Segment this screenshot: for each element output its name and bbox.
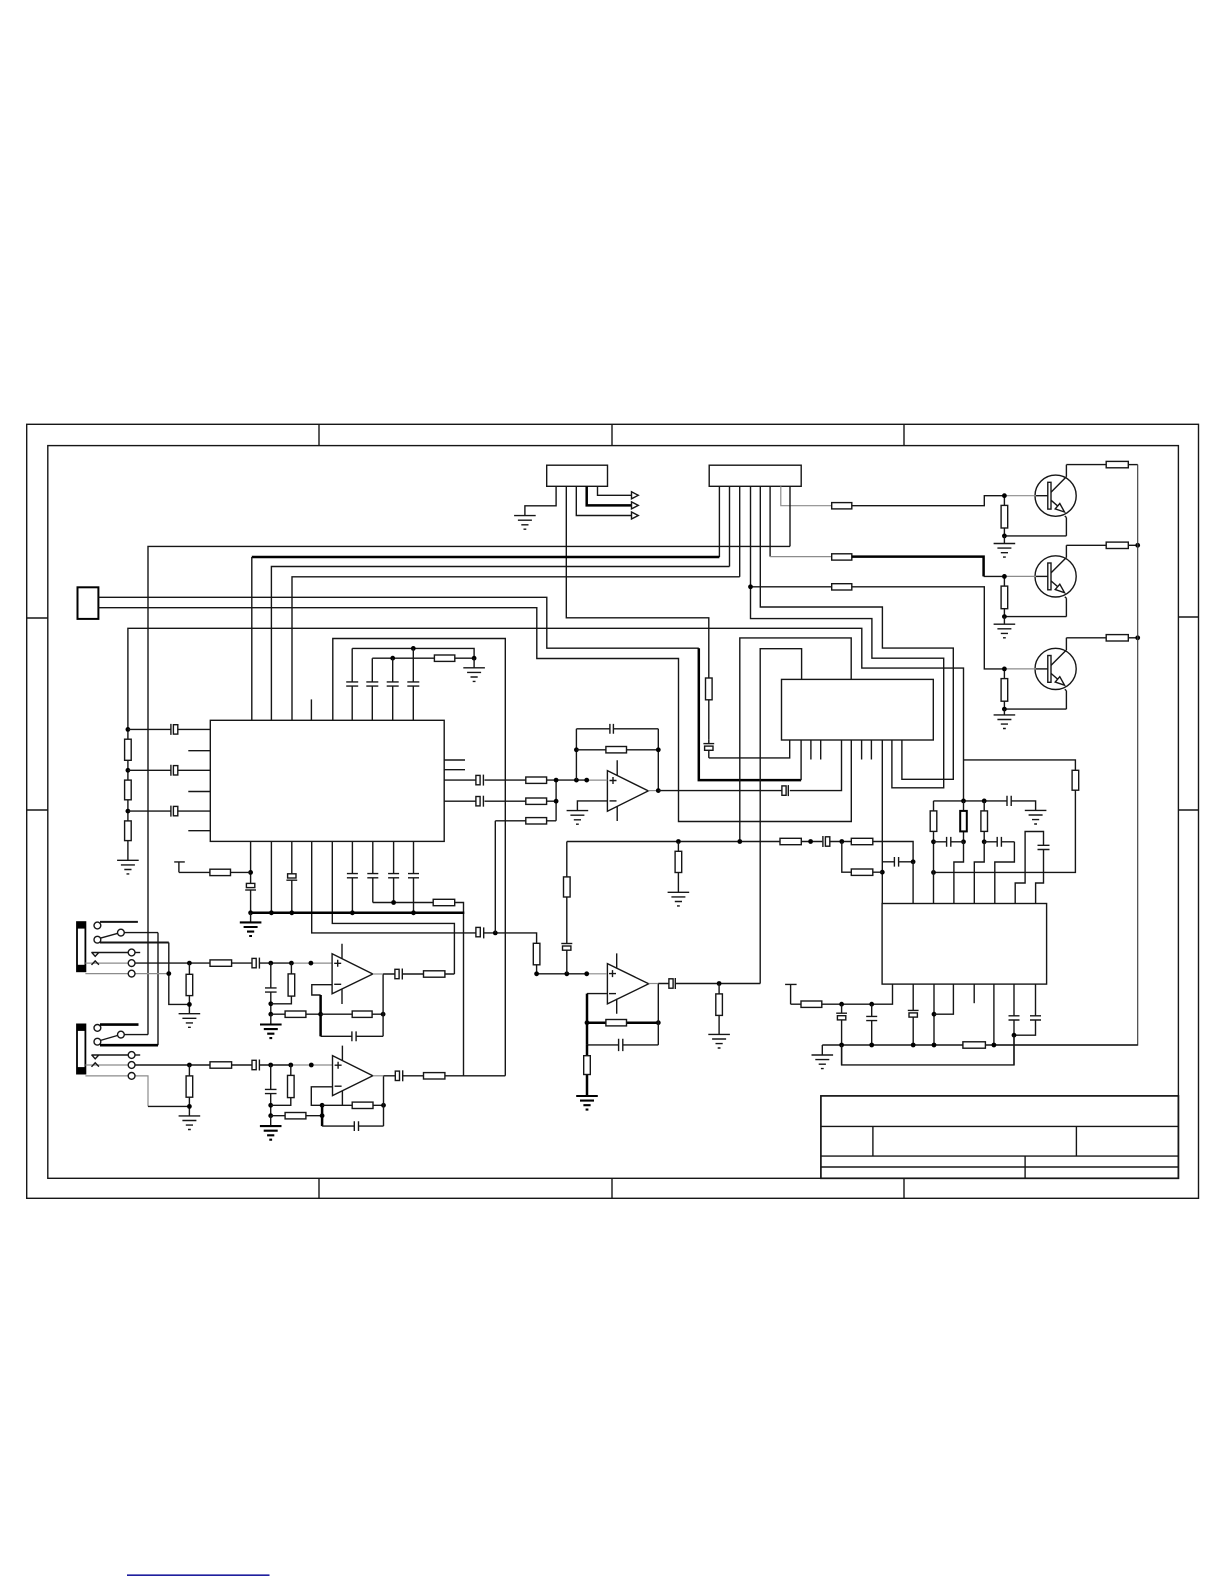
wire A2 fb resistor row	[587, 1021, 606, 1024]
wire U8 bottom pin4 jog to pin3	[934, 984, 953, 1014]
junction dot chain node 3	[126, 809, 131, 814]
net B wire (decoupling caps upper)	[352, 648, 474, 658]
junction dot A4 minus node top	[320, 1103, 325, 1108]
wire U2 bottom stub 1	[810, 740, 812, 760]
wire A1 output stub	[648, 790, 658, 792]
cluster rail above U8	[934, 801, 1036, 811]
resistor R feedback A1	[606, 747, 627, 753]
jack J5 sleeve gray path	[85, 1076, 148, 1107]
jack J5 ring spring	[85, 1064, 127, 1066]
junction dot gnd row d	[932, 1043, 937, 1048]
wire A4 minus input jog	[311, 1087, 332, 1106]
junction dot A4 fb output side	[381, 1103, 386, 1108]
junction dot A3 fb output side	[381, 1012, 386, 1017]
jack J5 tip circle	[128, 1052, 135, 1059]
wire U1 bottom pin2	[270, 841, 272, 912]
capacitor C below A3 dot a	[265, 963, 277, 1014]
resistor R row2	[851, 869, 873, 875]
capacitor polarized A4 output	[395, 1071, 399, 1080]
junction dot A3 node1	[268, 1001, 273, 1006]
wire J1 pin2 to bus3	[729, 486, 731, 566]
capacitor polarized on J2 pin2 trace	[703, 743, 714, 745]
wire J3 pin2 trace to U2 bottom pin	[98, 608, 851, 822]
wire A4 output stub	[373, 1075, 384, 1077]
wire A4 fb resistor row	[322, 1104, 383, 1106]
ground J4	[179, 1014, 201, 1028]
resistor R below A4 dot b	[271, 1065, 291, 1105]
border tick right 1	[1178, 616, 1198, 618]
jack J5 tip spring	[92, 1055, 129, 1059]
wire A1 fb right vertical to output	[657, 729, 659, 791]
jack J4 contact2 bar	[100, 942, 169, 944]
resistor R into pin1	[210, 869, 231, 875]
jack J4 NC contact circle	[94, 922, 101, 929]
junction dot A3 in a	[268, 961, 273, 966]
wire U2 top pin x851 to row-841	[740, 638, 851, 842]
capacitor polarized row-841	[822, 836, 824, 847]
wire cluster net3 step to U8 pin	[974, 842, 984, 904]
wire U1 left stub pin a	[188, 750, 210, 752]
wire A2 minus input jog	[587, 993, 607, 995]
wire U2 bottom stub 2	[820, 740, 822, 760]
resistor R gain A3	[271, 1013, 321, 1015]
resistor R into A2 plus	[533, 943, 540, 965]
wire x913 down to U8 pin	[912, 862, 914, 904]
wire bottom loop pins7/8	[842, 1035, 1014, 1065]
junction dot row-841 c	[808, 839, 813, 844]
wire A2 minus node bold vertical	[586, 994, 589, 1045]
wire U1 right out row2	[444, 800, 556, 802]
junction dot x882 row2	[880, 870, 885, 875]
jack J4 (upper left audio jack) body	[77, 922, 85, 971]
jack J4 sleeve circle	[128, 970, 135, 977]
capacitor C feedback A1	[610, 724, 614, 734]
arrow output 2	[632, 502, 639, 509]
capacitor polarized pin1	[246, 883, 254, 887]
wire row-841 (A2 bias row)	[567, 842, 913, 862]
jack J5 NC contact circle	[94, 1025, 101, 1032]
wire collector supply rail (right side)	[994, 465, 1138, 1045]
wire J1 pin5 trace around U2 to U2 bottom pin	[760, 486, 953, 779]
wire J5 ring signal row	[135, 1064, 291, 1066]
jack J5 sleeve circle	[128, 1073, 135, 1080]
jack J5 (lower left audio jack) body	[77, 1024, 85, 1073]
op-amp A2 triangle	[607, 964, 648, 1004]
resistor R feedback A4	[352, 1102, 373, 1108]
junction dot A2 in a	[534, 971, 539, 976]
wire bus W2 (x127 corner to cluster above U8)	[128, 628, 964, 801]
wire J3 pin1 bold segment down to U2	[699, 648, 801, 780]
T-bar symbol left of U1 bottom	[174, 862, 210, 873]
wire J4 ring signal row	[135, 962, 291, 964]
junction dot U8 row a	[839, 1002, 844, 1007]
transistor Q1 (NPN, top right)	[994, 461, 1138, 557]
border tick bottom 2	[611, 1178, 613, 1198]
ground J5	[179, 1116, 201, 1130]
ground A1 minus	[567, 811, 589, 825]
junction dot pin1 at 872	[248, 870, 253, 875]
wire U2 bottom stub 3	[861, 740, 863, 760]
resistor R row1	[526, 777, 547, 783]
border tick left 1	[27, 617, 48, 619]
wire A3 fb cap loop	[321, 1035, 384, 1037]
junction dot A1 input b	[584, 778, 589, 783]
wire divider chain segments	[127, 729, 129, 860]
wire U1 bottom pin1 chain	[250, 841, 252, 912]
jack J4 ring circle	[128, 960, 135, 967]
resistor R divider J5	[188, 1065, 190, 1116]
net A wire (U1 top pin x332 to op-amp rows / op-amp A4 output row)	[333, 639, 506, 1076]
IC U1 (large, left)	[210, 720, 444, 841]
resistor R feedback A2	[606, 1020, 627, 1026]
junction dot A1 fb right	[656, 747, 661, 752]
wire J1 pin3 to bus4	[739, 486, 741, 577]
junction dot A2 fb node	[585, 1020, 590, 1025]
capacitor C feedback A3	[352, 1031, 356, 1041]
op-amp A3 minus sign	[334, 983, 341, 985]
wire U1 bottom pin4 row to A2	[312, 841, 537, 943]
junction dot A2 in c	[584, 971, 589, 976]
title block row line 3	[821, 1166, 1179, 1168]
wire A2 plus input row	[537, 973, 587, 975]
resistor R fb row	[433, 899, 455, 905]
wire Q1 base row to base node	[852, 496, 1005, 506]
wire U8 bottom pin2 polarized cap	[908, 984, 919, 1045]
resistor R x1075	[1072, 770, 1079, 790]
wire J3 pin1 to op-amp A2 chain	[98, 597, 698, 648]
transistor Q2 (NPN, middle right)	[994, 542, 1140, 638]
wire A2 output stub	[649, 983, 659, 985]
jack J5 contact2 circle	[94, 1038, 101, 1045]
resistor R divider chain 1 (left of U1)	[125, 739, 132, 760]
title block row line 1	[821, 1125, 1179, 1127]
wire U1 bottom pin9 with cap	[408, 841, 419, 912]
wire A4 output row	[384, 1075, 506, 1077]
capacitor C3 (U1 top decoupling)	[387, 658, 399, 720]
junction dot gnd row b	[869, 1043, 874, 1048]
op-amp A1 triangle	[607, 771, 648, 812]
resistor R divider J4	[188, 963, 190, 1014]
border tick bottom 1	[318, 1178, 320, 1198]
resistor R row-841 left	[780, 838, 801, 844]
jack J4 tip spring	[92, 952, 129, 956]
junction dot A4 node2	[268, 1113, 273, 1118]
wire U8 bottom pin3	[933, 984, 935, 1045]
wire A1 fb cap row	[576, 728, 658, 730]
capacitor C cluster right of c	[984, 837, 1014, 847]
transistor Q3 (NPN, lower right)	[994, 635, 1140, 729]
wire vertical x168 (J4 contact2 to sleeve and ground)	[169, 943, 190, 1005]
op-amp A1 power stubs	[616, 760, 618, 821]
wire J4 tip stub	[135, 952, 140, 954]
junction dot gnd row c	[911, 1043, 916, 1048]
wire row3 corner chain x495	[494, 821, 496, 933]
junction dot J5 ground node	[187, 1104, 192, 1109]
ground divider chain	[117, 860, 139, 874]
junction dot cluster row-841 c	[982, 839, 987, 844]
wire J5 tip stub	[135, 1054, 140, 1056]
capacitor polarized A1 output	[782, 786, 786, 795]
junction dot J4 ground node	[187, 1002, 192, 1007]
connector J2 (5-pin, top center-left)	[547, 465, 608, 486]
capacitor C cluster between a-b	[934, 837, 964, 847]
resistor R row2	[526, 798, 547, 804]
resistor R row3	[526, 818, 547, 824]
resistor R A3 output	[424, 971, 445, 977]
junction dot rows x556 row1	[554, 778, 559, 783]
border tick right 2	[1178, 809, 1198, 811]
arrow output 1	[632, 492, 639, 499]
resistor R series J4 row	[210, 960, 232, 966]
wire Q3 base row from J1 pin4 junction	[751, 587, 1005, 669]
junction dot bus pin2	[269, 910, 274, 915]
op-amp A2 minus sign	[609, 993, 616, 995]
resistor R cluster 3	[983, 801, 985, 842]
junction dot A4 node1	[268, 1103, 273, 1108]
jack J4 lever circle	[118, 929, 125, 936]
resistor R gain A4	[271, 1115, 322, 1117]
wire row2 branch (841 to 872)	[842, 842, 883, 873]
wire J2 pin1 to ground	[525, 486, 556, 515]
resistor R A4 output	[424, 1073, 445, 1079]
resistor R divider chain 2	[125, 780, 132, 800]
wire A2 output vertical	[657, 984, 659, 1045]
capacitor polarized row2	[476, 797, 480, 806]
capacitor polarized A2 output	[669, 979, 673, 988]
junction dot rows x556 row2	[554, 799, 559, 804]
wire sleeve to ground node	[148, 1105, 189, 1107]
jack J4 tip circle	[128, 949, 135, 956]
op-amp A4 triangle	[333, 1056, 373, 1096]
resistor R below A3 dot b	[271, 963, 292, 1004]
wire A3 output row	[383, 973, 454, 975]
junction dot fb row	[391, 900, 396, 905]
junction dot chain node 2	[126, 768, 131, 773]
title block column divider b	[1075, 1126, 1077, 1156]
wire big cap bottom lead	[1036, 850, 1044, 904]
junction dot A3 in b	[289, 961, 294, 966]
bus2 bold wire (J1 pin1 to U1 top pin)	[252, 556, 720, 559]
resistor R cluster 2	[963, 801, 965, 842]
capacitor C feedback A2	[619, 1039, 623, 1051]
wire row3 (net A branch)	[495, 820, 556, 822]
wire U8 pin1 row	[822, 984, 893, 1004]
capacitor C2 (U1 top decoupling)	[366, 658, 378, 720]
title block outline	[821, 1096, 1179, 1178]
capacitor C below A4 dot a	[265, 1065, 277, 1116]
capacitor polarized J5 row	[252, 1060, 256, 1069]
bus3 wire (J1 pin2 to U1 top pin)	[271, 567, 729, 721]
junction dot A1 fb left	[574, 747, 579, 752]
ground A4 input cluster	[270, 1116, 272, 1126]
capacitor C feedback A4	[354, 1121, 358, 1131]
capacitor polarized J4 row	[252, 958, 256, 967]
junction dot row-872 at x933	[931, 870, 936, 875]
jack J4 ring spring	[85, 962, 127, 964]
wire A4 output vertical	[383, 1076, 385, 1126]
jack J4 NC contact bar	[100, 921, 138, 923]
junction dot A1 input a	[574, 778, 579, 783]
ground cluster rail	[1025, 810, 1047, 824]
junction dot net C cap3	[390, 656, 395, 661]
capacitor polarized U1 left row1	[128, 724, 171, 735]
wire J4 lever to vertical x158	[125, 932, 159, 934]
capacitor polarized row1	[476, 775, 480, 784]
resistor R gain A2 to ground	[586, 1045, 589, 1096]
wire cluster net2 step to U8 pin	[954, 842, 964, 904]
hyperlink underline (bottom left)	[127, 1574, 270, 1576]
title block column divider a	[872, 1126, 874, 1156]
capacitor polarized U1 left row2	[128, 765, 171, 776]
junction dot A4 minus node mid	[320, 1113, 325, 1118]
title block column divider c	[1024, 1156, 1026, 1178]
ground for J2 pin1	[514, 516, 536, 530]
junction dot A4 in b	[288, 1063, 293, 1068]
capacitor C row cap branch	[894, 857, 898, 867]
junction dot rail mid	[961, 799, 966, 804]
junction dot J4 divider top	[187, 961, 192, 966]
wire A1 plus input gray stub	[587, 779, 608, 781]
wire y760 feed to resistor x1075	[964, 760, 1076, 770]
wire J2 pin4 to arrow 2 (bold)	[587, 486, 632, 505]
wire U8 bottom pin7 with cap	[1009, 984, 1020, 1065]
resistor R chain x566	[564, 877, 571, 897]
junction dot row-841 d	[839, 839, 844, 844]
IC U8 (bottom right)	[882, 904, 1047, 985]
wire rows join vertical x556	[555, 780, 557, 821]
ground below row-841 resistor	[668, 892, 690, 906]
wire A3 output stub	[373, 973, 383, 975]
wire J1 pin6 down to Q2 base row	[769, 486, 771, 556]
op-amp A3 power stubs	[341, 944, 343, 1004]
wire A1 output cap to U2 pin	[790, 740, 842, 791]
wire J2 pin5 to arrow 1	[598, 486, 632, 495]
junction dot pin3 mid	[932, 1012, 937, 1017]
wire U2 bottom pin from J3 pin1 trace	[800, 740, 802, 780]
wire cap to U2 bottom pin x789	[709, 740, 790, 758]
wire U1 bottom pin3 with polarized cap	[286, 841, 297, 912]
junction dot gnd row e	[992, 1043, 997, 1048]
arrow output 3	[632, 512, 639, 519]
wire resistor to pin1 dot	[231, 871, 251, 873]
wire big cap top lead	[1015, 832, 1043, 904]
wire U1 left stub pin b	[188, 791, 210, 793]
ground A2 load	[708, 1034, 730, 1048]
ground row left ground symbol	[821, 1045, 823, 1055]
jack J4 switch lever	[100, 933, 117, 938]
wire U1 bottom pin6 with cap	[347, 841, 358, 912]
capacitor C4 (U1 top decoupling)	[407, 648, 419, 720]
capacitor C below dot b	[866, 1004, 877, 1045]
wire U1 bottom pin7 with cap to fb row	[367, 841, 378, 902]
border tick top 1	[318, 424, 320, 445]
bus1 wire (J1 pin8 to left edge)	[148, 546, 790, 1034]
junction dot J1 pin4 / Q3 base row	[748, 584, 753, 589]
resistor R cluster 1	[933, 801, 935, 904]
resistor R row-841 right	[851, 838, 873, 844]
op-amp A1 minus sign	[610, 800, 617, 802]
wire U1 left stub pin c	[188, 830, 210, 832]
wire A1 fb resistor row	[576, 749, 658, 751]
capacitor polarized below dot a	[836, 1004, 847, 1013]
border tick top 2	[611, 424, 613, 445]
junction dot A4 in c	[309, 1063, 314, 1068]
wire cap branch x882 to x913	[882, 861, 913, 863]
op-amp A4 power stubs	[341, 1046, 343, 1106]
wire J1 pin1 to bold bus2	[718, 486, 720, 557]
resistor R base Q3 (horizontal)	[832, 584, 852, 590]
jack J5 NC contact bar bold	[100, 1023, 139, 1026]
capacitor polarized chain x566	[561, 943, 572, 945]
capacitor polarized pin4 row	[476, 927, 480, 936]
capacitor polarized A3 output	[395, 969, 399, 978]
junction dot net B cap4	[411, 646, 416, 651]
capacitor C rail to ground	[1007, 796, 1011, 806]
ground for bus	[250, 913, 252, 923]
junction dot net B/C join	[472, 656, 477, 661]
wire U2 bottom pin x882 chain to U8	[881, 740, 883, 904]
op-amp A3 plus sign	[334, 960, 341, 967]
junction dot chain node 1	[126, 727, 131, 732]
resistor R load A2 to ground	[718, 984, 720, 1035]
junction dot A3 fb node	[318, 1012, 323, 1017]
jack J4 contact2 circle	[94, 936, 101, 943]
junction dot U8 row b	[869, 1002, 874, 1007]
bus4 wire (J1 pin3 to U1 top pin)	[292, 577, 740, 721]
wire J5 lever to bus1 vertical	[125, 1034, 149, 1036]
ground for net C	[473, 658, 475, 668]
wire A2 fb cap loop	[587, 1044, 658, 1046]
junction dot rail right	[982, 799, 987, 804]
junction dot bus pin6	[350, 910, 355, 915]
wire U2 top pin x801 to A2 output	[760, 649, 801, 984]
capacitor C big (right of cluster)	[1038, 845, 1050, 849]
op-amp A2 plus sign	[609, 970, 616, 977]
wire U1 bottom pin5 feedback from A3	[332, 841, 454, 974]
capacitor polarized U1 left row3	[128, 806, 171, 817]
wire vertical x158 (J4 lever to J5 contact2)	[157, 933, 159, 1046]
junction dot A2 output load	[717, 981, 722, 986]
wire R to polarized cap	[708, 700, 710, 740]
ground row under U8	[822, 1044, 1137, 1046]
border tick top 3	[903, 424, 905, 445]
wire A4 minus node bold vertical	[321, 1105, 324, 1126]
resistor R divider chain 3	[125, 821, 132, 841]
jack J4 sleeve gray path	[85, 973, 168, 975]
wire U1 right out row1	[444, 779, 587, 781]
connector J1 (8-pin, top center)	[709, 465, 801, 486]
wire A3 minus node bold vertical	[319, 995, 322, 1036]
wire cluster cap-chain step to U8 pin	[995, 842, 1015, 904]
wire A1 feedback left vertical	[575, 729, 577, 780]
junction dot cluster row-841 b	[961, 839, 966, 844]
wire A1 output to coupling cap	[658, 790, 782, 792]
junction dot A2 in b	[564, 971, 569, 976]
resistor R base Q2 (horizontal)	[832, 554, 852, 560]
junction dot A1 output	[656, 788, 661, 793]
junction dot x913	[911, 859, 916, 864]
resistor R series J5 row	[210, 1062, 232, 1068]
wire A1 minus input to ground	[577, 801, 607, 811]
junction dot row-841 b	[737, 839, 742, 844]
junction dot A3 node2	[268, 1012, 273, 1017]
title block row line 2	[821, 1155, 1179, 1157]
sheet inner border frame	[48, 446, 1179, 1179]
junction dot bus pin9	[411, 910, 416, 915]
junction dot sleeve x168	[166, 971, 171, 976]
resistor R in ground row	[963, 1042, 986, 1048]
op-amp A1 plus sign	[610, 777, 617, 784]
